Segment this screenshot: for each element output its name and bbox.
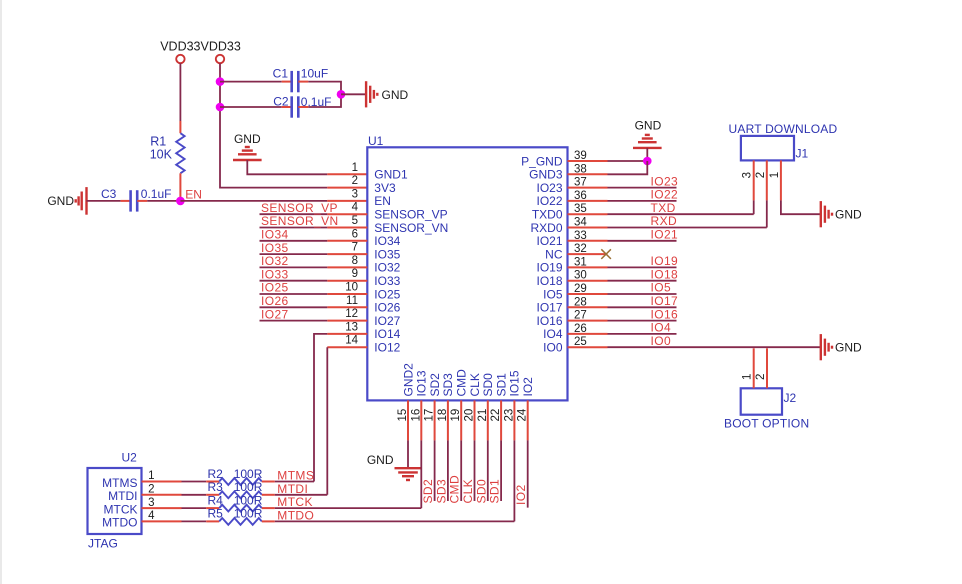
junction C1 rail	[216, 77, 225, 86]
svg-text:13: 13	[345, 321, 358, 333]
wire pin39 to gnd	[608, 160, 648, 162]
svg-text:100R: 100R	[234, 507, 263, 521]
svg-text:IO17: IO17	[651, 294, 679, 308]
U2 pin names	[102, 476, 137, 530]
ground (P_GND/GND3)	[633, 147, 662, 149]
capacitor C3	[129, 190, 132, 211]
svg-text:IO23: IO23	[651, 174, 679, 188]
svg-text:R3: R3	[208, 480, 224, 494]
wire R1 to EN junction	[179, 173, 181, 201]
wire J1 pin1 to GND	[781, 200, 821, 214]
svg-text:IO18: IO18	[536, 274, 562, 288]
pin stub EN	[327, 200, 367, 202]
svg-text:SD2: SD2	[428, 373, 442, 397]
svg-text:IO22: IO22	[651, 188, 679, 202]
svg-text:IO19: IO19	[651, 254, 679, 268]
svg-text:IO15: IO15	[508, 370, 522, 396]
net label RXD + wire to J1 pin2	[608, 227, 767, 229]
right net labels	[651, 174, 679, 334]
power symbol VDD33 (right, feeds C1/C2 + 3V3)	[216, 55, 224, 63]
svg-text:4: 4	[352, 202, 359, 214]
svg-text:6: 6	[352, 228, 358, 240]
wire R3 to MTDI net	[275, 494, 328, 496]
pin stub IO14 (13)	[327, 333, 367, 335]
svg-text:9: 9	[352, 268, 358, 280]
resistor R2	[219, 478, 262, 485]
svg-text:14: 14	[345, 335, 358, 347]
svg-text:BOOT OPTION: BOOT OPTION	[724, 417, 809, 431]
svg-text:3: 3	[352, 188, 358, 200]
wire pin14 to MTDI	[326, 347, 328, 495]
wire C3 to EN junction	[137, 200, 147, 202]
connector U2 outline	[88, 468, 142, 534]
power symbol VDD33 (left, feeds R1)	[176, 55, 184, 63]
wire J1 pin2 to RXD	[766, 200, 768, 227]
svg-text:IO25: IO25	[261, 281, 289, 295]
svg-text:11: 11	[346, 295, 358, 307]
svg-text:JTAG: JTAG	[88, 537, 118, 551]
wire pin23 IO15 to MTDO	[513, 440, 515, 521]
svg-text:IO18: IO18	[651, 267, 679, 281]
connector J2 outline	[741, 388, 782, 414]
svg-text:SENSOR_VN: SENSOR_VN	[261, 214, 339, 228]
wire C1 to gnd corner	[298, 81, 308, 83]
svg-text:10uF: 10uF	[301, 67, 328, 81]
no-connect X on pin 32	[601, 249, 611, 259]
U1 left pin numbers	[345, 162, 358, 347]
U1 right pin names	[521, 154, 563, 354]
svg-text:P_GND: P_GND	[521, 154, 563, 168]
svg-text:IO22: IO22	[536, 194, 562, 208]
left edge shading	[0, 0, 2, 584]
ground (C1/C2)	[365, 81, 367, 107]
svg-text:SD1: SD1	[494, 373, 508, 397]
svg-text:2: 2	[755, 172, 767, 178]
wire to C1	[220, 81, 282, 83]
svg-text:1: 1	[352, 162, 358, 174]
svg-text:IO0: IO0	[543, 341, 563, 355]
svg-text:C1: C1	[273, 67, 289, 81]
svg-text:MTDO: MTDO	[277, 508, 314, 522]
svg-text:IO21: IO21	[536, 234, 562, 248]
wire R2 to MTMS net	[275, 481, 314, 483]
junction P_GND	[643, 157, 652, 166]
wire GND2 pin15	[407, 440, 409, 468]
svg-text:100R: 100R	[234, 480, 263, 494]
svg-text:TXD: TXD	[651, 201, 676, 215]
wire VDD33 rail down to 3V3	[220, 63, 327, 187]
J1 pin stubs	[753, 160, 755, 200]
svg-text:C3: C3	[101, 187, 117, 201]
svg-text:J1: J1	[796, 147, 809, 161]
svg-text:SENSOR_VP: SENSOR_VP	[261, 201, 338, 215]
svg-text:CLK: CLK	[468, 373, 482, 396]
svg-text:MTDO: MTDO	[102, 516, 137, 530]
svg-text:IO32: IO32	[261, 254, 289, 268]
resistor R5	[219, 518, 262, 525]
svg-text:GND: GND	[835, 208, 862, 222]
svg-text:GND: GND	[47, 194, 74, 208]
svg-text:R4: R4	[208, 493, 224, 507]
svg-text:100R: 100R	[234, 493, 263, 507]
svg-text:IO26: IO26	[374, 301, 400, 315]
svg-text:IO2: IO2	[514, 484, 528, 505]
svg-text:SD3: SD3	[434, 479, 448, 504]
svg-text:SD0: SD0	[481, 373, 495, 397]
svg-text:IO32: IO32	[374, 261, 400, 275]
junction C1/C2 gnd	[337, 90, 346, 99]
left net labels	[261, 201, 339, 321]
U1 right pin stubs	[568, 161, 608, 347]
svg-text:IO16: IO16	[536, 314, 562, 328]
svg-text:IO2: IO2	[521, 377, 535, 397]
svg-text:EN: EN	[374, 194, 391, 208]
wire junction to GND	[341, 93, 366, 95]
pin stub GND1	[327, 173, 367, 175]
junction C2 rail	[216, 103, 225, 112]
svg-text:MTCK: MTCK	[104, 502, 138, 516]
svg-text:100R: 100R	[234, 467, 263, 481]
svg-text:SD1: SD1	[488, 479, 502, 504]
svg-text:CMD: CMD	[455, 369, 469, 397]
svg-text:10: 10	[345, 282, 358, 294]
svg-text:IO4: IO4	[543, 327, 563, 341]
resistor R3	[219, 491, 262, 498]
svg-text:UART DOWNLOAD: UART DOWNLOAD	[729, 122, 838, 136]
net label IO0 + wire to J2/GND	[608, 346, 821, 348]
svg-text:7: 7	[352, 242, 358, 254]
svg-text:GND2: GND2	[401, 363, 415, 397]
U2 pin stubs	[142, 482, 220, 522]
svg-text:MTCK: MTCK	[277, 495, 313, 509]
svg-text:3: 3	[742, 172, 754, 178]
connector J1 outline	[741, 136, 794, 161]
svg-text:IO21: IO21	[651, 228, 679, 242]
svg-text:3V3: 3V3	[374, 181, 396, 195]
svg-text:C2: C2	[273, 95, 289, 109]
svg-text:U2: U2	[122, 451, 138, 465]
svg-text:GND: GND	[367, 453, 394, 467]
pin stub IO12 (14)	[327, 346, 367, 348]
svg-text:2: 2	[148, 484, 154, 496]
junction EN	[176, 197, 185, 206]
wire pin24 IO2	[527, 440, 529, 507]
svg-text:MTDI: MTDI	[108, 489, 137, 503]
svg-text:IO33: IO33	[261, 267, 289, 281]
svg-text:GND: GND	[835, 340, 862, 354]
svg-text:RXD: RXD	[651, 214, 678, 228]
svg-text:U1: U1	[368, 134, 384, 148]
svg-text:R5: R5	[208, 507, 224, 521]
wire J1 pin3 to TXD	[753, 200, 755, 214]
wire EN to pin3	[180, 200, 327, 202]
svg-text:8: 8	[352, 255, 358, 267]
resistor R4	[219, 505, 262, 512]
svg-text:GND: GND	[382, 88, 409, 102]
wire GND to C3	[87, 200, 121, 202]
svg-text:IO4: IO4	[651, 321, 672, 335]
svg-text:CLK: CLK	[461, 479, 475, 504]
net label TXD + wire to J1 pin3	[608, 213, 754, 215]
svg-text:RXD0: RXD0	[530, 221, 562, 235]
svg-text:IO19: IO19	[536, 261, 562, 275]
wire pin13 to MTMS	[314, 334, 327, 482]
svg-text:SENSOR_VN: SENSOR_VN	[374, 221, 448, 235]
svg-text:IO0: IO0	[651, 334, 672, 348]
wire GND to pin1	[247, 160, 327, 174]
svg-text:TXD0: TXD0	[532, 208, 563, 222]
bottom net wires pins 17-22	[435, 440, 502, 501]
right net stub wires	[608, 188, 677, 334]
svg-text:4: 4	[148, 510, 155, 522]
ground (J1)	[820, 201, 822, 227]
resistor R1	[176, 133, 184, 173]
svg-text:IO34: IO34	[374, 234, 400, 248]
svg-text:3: 3	[148, 497, 154, 509]
svg-text:1: 1	[148, 470, 154, 482]
svg-text:VDD33VDD33: VDD33VDD33	[160, 40, 241, 54]
svg-text:GND1: GND1	[374, 168, 408, 182]
svg-text:GND: GND	[234, 132, 261, 146]
svg-text:SD2: SD2	[421, 479, 435, 504]
wire C2 to gnd corner	[298, 106, 308, 108]
svg-text:1: 1	[769, 172, 781, 178]
svg-text:2: 2	[352, 175, 358, 187]
svg-text:SENSOR_VP: SENSOR_VP	[374, 208, 447, 222]
svg-text:EN: EN	[185, 188, 202, 202]
wire R5 to MTDO net (pin23)	[275, 520, 515, 522]
wire gnd stem	[646, 148, 648, 161]
U1 right pin numbers	[574, 150, 587, 348]
svg-text:GND: GND	[635, 119, 662, 133]
wire pin38 GND3	[608, 161, 648, 174]
svg-text:IO16: IO16	[651, 307, 679, 321]
ground (U1 pin1 GND1)	[233, 159, 262, 161]
svg-text:IO17: IO17	[536, 301, 562, 315]
wire to C2	[220, 106, 282, 108]
svg-text:MTMS: MTMS	[277, 469, 314, 483]
capacitor C1	[290, 71, 293, 92]
wire pin16 IO13 to MTCK	[420, 440, 422, 508]
svg-text:IO13: IO13	[415, 370, 429, 396]
svg-text:1: 1	[742, 374, 754, 380]
U1 left pin names	[374, 168, 448, 355]
svg-text:IO26: IO26	[261, 294, 289, 308]
capacitor C2	[290, 96, 293, 117]
svg-text:J2: J2	[784, 391, 797, 405]
svg-text:IO14: IO14	[374, 327, 400, 341]
svg-text:IO12: IO12	[374, 341, 400, 355]
svg-text:0.1uF: 0.1uF	[141, 187, 172, 201]
U1 bottom pin numbers (rotated)	[397, 408, 529, 421]
svg-text:MTDI: MTDI	[277, 482, 308, 496]
svg-text:IO27: IO27	[261, 307, 289, 321]
J2 pin stubs	[753, 348, 755, 388]
svg-text:5: 5	[352, 215, 358, 227]
ground (GND2)	[395, 467, 422, 469]
svg-text:R2: R2	[208, 467, 224, 481]
svg-text:IO25: IO25	[374, 287, 400, 301]
pin stub 3V3	[327, 187, 367, 189]
svg-text:IO35: IO35	[374, 247, 400, 261]
svg-text:12: 12	[345, 308, 358, 320]
svg-text:CMD: CMD	[448, 475, 462, 504]
svg-text:SD0: SD0	[474, 479, 488, 504]
bottom net labels (rotated)	[421, 475, 502, 504]
svg-text:IO5: IO5	[651, 281, 672, 295]
svg-text:10K: 10K	[150, 148, 173, 162]
svg-text:MTMS: MTMS	[102, 476, 137, 490]
svg-text:GND3: GND3	[529, 168, 563, 182]
svg-text:SD3: SD3	[441, 373, 455, 397]
wire R4 to MTCK net (pin16)	[275, 507, 422, 509]
svg-text:NC: NC	[545, 247, 563, 261]
svg-text:IO33: IO33	[374, 274, 400, 288]
U1 left pin stubs (pins 4-12 with net wires)	[260, 214, 368, 320]
ground (J2)	[820, 334, 822, 360]
svg-text:2: 2	[755, 374, 767, 380]
svg-text:IO34: IO34	[261, 228, 289, 242]
wire VDD33 to R1	[179, 63, 181, 121]
U2 pin numbers	[148, 470, 155, 522]
svg-text:IO35: IO35	[261, 241, 289, 255]
U1 bottom pin stubs	[408, 400, 528, 440]
IC U1	[367, 147, 567, 400]
svg-text:IO5: IO5	[543, 287, 563, 301]
U1 bottom pin names (rotated)	[401, 363, 535, 397]
svg-text:IO23: IO23	[536, 181, 562, 195]
svg-text:IO27: IO27	[374, 314, 400, 328]
